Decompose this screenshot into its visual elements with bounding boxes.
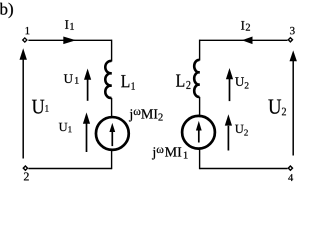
wire left branch middle <box>111 98 113 118</box>
wire left branch lower <box>111 149 113 169</box>
label U1 (source) <box>59 123 72 132</box>
inductor L1 <box>105 61 111 98</box>
voltage arrow U1 (port 1-2) <box>22 58 24 159</box>
label U1 (L1) <box>64 74 79 83</box>
wire bottom-left <box>28 168 111 170</box>
wire bottom-right <box>200 168 288 170</box>
label U1 (port) <box>32 100 49 114</box>
label L2 <box>176 74 190 88</box>
terminal 3 <box>288 38 292 42</box>
current source jwMI2 <box>96 117 129 150</box>
wire top-left <box>28 39 111 41</box>
label jwMI2 <box>129 109 163 121</box>
source arrow (inside right circle) <box>198 129 200 143</box>
terminal 4 <box>288 166 292 170</box>
wire right branch upper <box>199 40 201 61</box>
voltage arrow U2 across L2 <box>229 79 231 101</box>
label U2 (port) <box>268 100 286 116</box>
terminal 1 <box>23 38 27 42</box>
wire left branch upper <box>111 40 113 62</box>
current arrow I1 <box>63 37 76 45</box>
label I2 <box>241 21 250 31</box>
node 1 label <box>26 27 30 34</box>
label jwMI1 <box>152 147 188 159</box>
label U2 (source) <box>235 125 248 136</box>
inductor L2 <box>194 60 199 97</box>
voltage arrow U1 across L1 <box>87 78 89 101</box>
wire top-right <box>200 39 288 41</box>
source arrow (inside left circle) <box>111 130 113 146</box>
terminal 2 <box>23 166 27 170</box>
wire right branch lower <box>199 148 201 169</box>
node 4 label <box>288 174 293 181</box>
wire right branch middle <box>199 97 201 116</box>
voltage arrow U2 across source <box>227 126 229 151</box>
figure label b) <box>0 3 13 18</box>
label U2 (L2) <box>235 77 248 88</box>
current arrow I2 <box>242 37 253 45</box>
node 3 label <box>290 27 295 34</box>
voltage arrow U2 (port 3-4) <box>292 60 294 156</box>
current source jwMI1 <box>182 116 215 149</box>
label I1 <box>65 20 74 30</box>
node 2 label <box>24 172 29 180</box>
voltage arrow U1 across source <box>86 124 88 153</box>
label L1 <box>121 75 135 90</box>
